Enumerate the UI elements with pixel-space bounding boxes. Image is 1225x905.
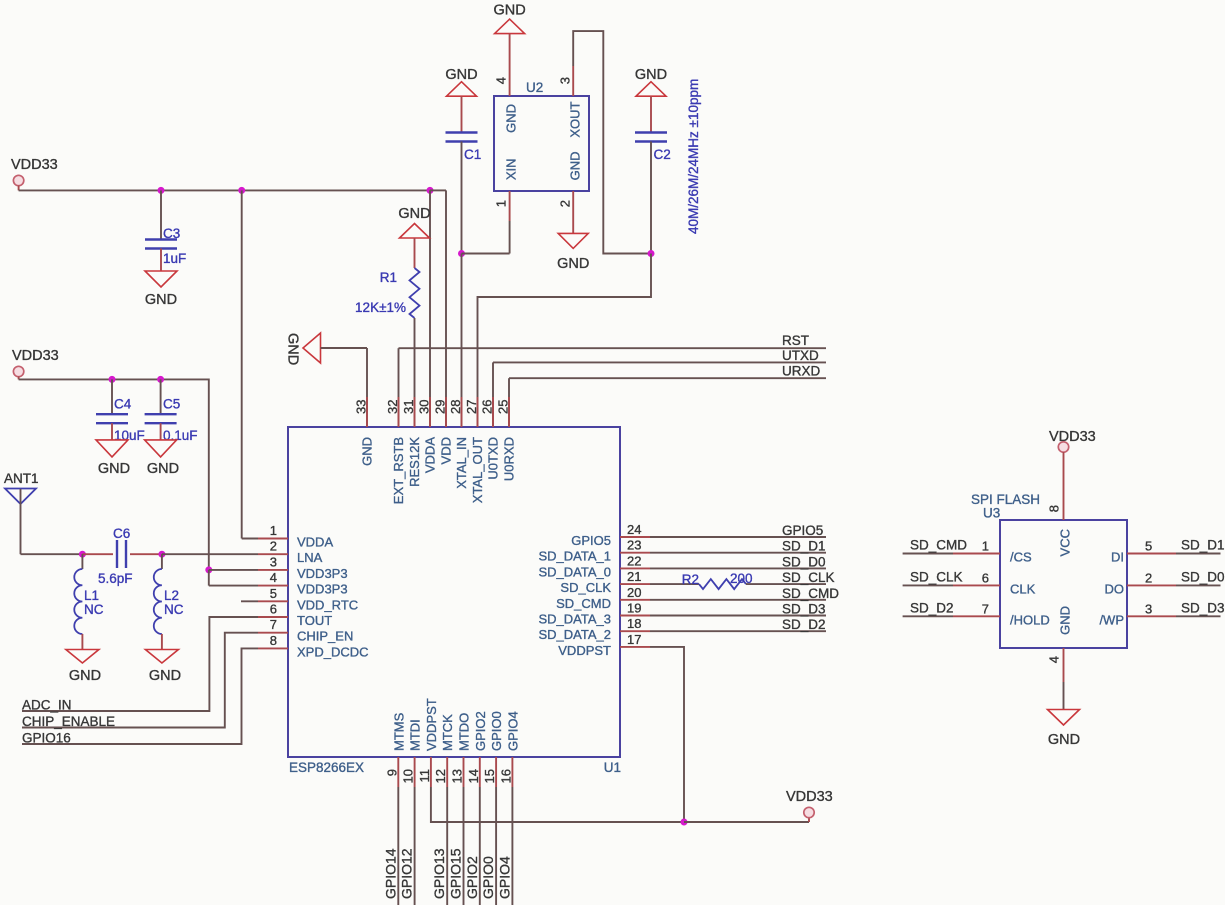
net SD_D3 line xyxy=(650,615,826,617)
svg-text:XTAL_OUT: XTAL_OUT xyxy=(470,437,485,503)
ground below C4 xyxy=(96,440,128,457)
svg-text:29: 29 xyxy=(433,400,448,414)
wire pin4 from corner xyxy=(209,585,258,587)
svg-text:10uF: 10uF xyxy=(114,428,145,443)
U1 pin 2 stub xyxy=(258,553,288,555)
svg-text:TOUT: TOUT xyxy=(297,613,332,628)
svg-text:4: 4 xyxy=(494,77,509,84)
U1 pin 10 stub xyxy=(414,757,416,787)
svg-text:GND: GND xyxy=(149,668,181,684)
net URXD line xyxy=(509,377,826,379)
svg-text:12: 12 xyxy=(433,769,448,783)
svg-text:GND: GND xyxy=(493,3,525,19)
wire rail2 to C5 xyxy=(160,379,162,414)
svg-text:GPIO14: GPIO14 xyxy=(382,848,398,899)
net GPIO16 route xyxy=(22,648,258,744)
svg-text:SD_DATA_0: SD_DATA_0 xyxy=(539,564,612,579)
net SD_CLK right part xyxy=(746,583,826,585)
ground above C1 xyxy=(447,82,477,97)
svg-text:GPIO0: GPIO0 xyxy=(489,711,504,751)
net SD_CMD line xyxy=(650,599,826,601)
wire VDD33 stub 2 xyxy=(18,377,20,380)
wire R1 top xyxy=(414,238,416,268)
junction L2/LNA xyxy=(158,551,165,558)
svg-text:21: 21 xyxy=(627,569,641,584)
ground below U2 pin2 xyxy=(558,233,588,248)
svg-text:C5: C5 xyxy=(163,397,180,412)
svg-text:4: 4 xyxy=(1047,656,1062,663)
U3 pin 1 stub xyxy=(953,553,1000,555)
svg-text:VDDPST: VDDPST xyxy=(558,643,611,658)
svg-text:SD_CMD: SD_CMD xyxy=(910,538,967,553)
svg-text:5: 5 xyxy=(270,586,277,601)
wire GPIO column pin 13 xyxy=(463,787,465,905)
svg-text:6: 6 xyxy=(982,570,989,585)
junction VDDA-col/rail xyxy=(238,187,245,194)
svg-text:GND: GND xyxy=(145,292,177,308)
U3 pin 5 stub xyxy=(1127,553,1176,555)
svg-text:20: 20 xyxy=(627,585,641,600)
U1 pin 12 stub xyxy=(446,757,448,787)
wire pin29 VDD column xyxy=(445,190,447,427)
svg-text:3: 3 xyxy=(270,554,277,569)
svg-text:VDD33: VDD33 xyxy=(1049,429,1096,445)
svg-text:GPIO5: GPIO5 xyxy=(782,523,823,538)
svg-text:GPIO0: GPIO0 xyxy=(480,856,496,899)
wire XIN horizontal xyxy=(462,253,510,255)
svg-text:14: 14 xyxy=(466,769,481,783)
svg-text:L1: L1 xyxy=(84,588,99,603)
U1 pin 19 stub xyxy=(620,615,650,617)
U3 pin8 stub xyxy=(1063,452,1065,520)
svg-text:CHIP_ENABLE: CHIP_ENABLE xyxy=(22,714,115,729)
svg-text:19: 19 xyxy=(627,601,641,616)
svg-text:GND: GND xyxy=(147,461,179,477)
U1 pin 7 stub xyxy=(258,632,288,634)
wire XTAL_OUT route xyxy=(478,254,652,428)
U1 pin 27 stub xyxy=(477,397,479,427)
U1 pin 11 stub xyxy=(430,757,432,787)
wire XTAL_IN column xyxy=(461,254,463,428)
U1 pin 1 stub xyxy=(258,538,288,540)
svg-text:GPIO16: GPIO16 xyxy=(22,731,71,746)
svg-text:2: 2 xyxy=(270,539,277,554)
svg-text:40M/26M/24MHz ±10ppm: 40M/26M/24MHz ±10ppm xyxy=(686,79,701,234)
junction C4/rail2 xyxy=(109,376,116,383)
svg-text:GND: GND xyxy=(504,104,519,133)
svg-text:1: 1 xyxy=(494,200,509,207)
wire VDD33 rail 2 xyxy=(19,379,209,570)
svg-text:DO: DO xyxy=(1105,581,1125,596)
svg-text:R2: R2 xyxy=(682,572,699,587)
svg-text:NC: NC xyxy=(84,602,104,617)
svg-text:GPIO5: GPIO5 xyxy=(571,533,611,548)
svg-text:24: 24 xyxy=(627,522,641,537)
svg-text:SD_CMD: SD_CMD xyxy=(782,586,839,601)
junction VDDPST xyxy=(681,819,688,826)
svg-text:10: 10 xyxy=(401,769,416,783)
svg-text:CHIP_EN: CHIP_EN xyxy=(297,629,353,644)
U1 pin 23 stub xyxy=(620,552,650,554)
svg-text:SD_CMD: SD_CMD xyxy=(556,596,611,611)
U1 pin 24 stub xyxy=(620,536,650,538)
svg-text:VDD_RTC: VDD_RTC xyxy=(297,597,358,612)
wire pin25 column xyxy=(508,378,510,427)
U1 pin 3 stub xyxy=(258,569,288,571)
net SD_D1 line xyxy=(650,552,826,554)
wire pin30 VDDA column xyxy=(429,190,431,427)
U3 pin 3 stub xyxy=(1127,615,1176,617)
resistor R2 xyxy=(699,579,746,589)
wire GPIO column pin 9 xyxy=(397,787,399,905)
svg-text:ANT1: ANT1 xyxy=(4,471,39,486)
svg-text:UTXD: UTXD xyxy=(782,348,819,363)
wire VDDA pin1 xyxy=(242,538,258,540)
junction C1/XIN/XTAL_IN xyxy=(458,250,465,257)
U1 pin 17 stub xyxy=(620,646,650,648)
wire U2 pin2 to gnd xyxy=(572,221,574,233)
U1 pin 29 stub xyxy=(445,397,447,427)
U1 pin 4 stub xyxy=(258,585,288,587)
wire VDDPST pin17 route xyxy=(650,647,684,822)
svg-text:SD_D2: SD_D2 xyxy=(910,600,954,615)
svg-text:SD_CLK: SD_CLK xyxy=(560,580,611,595)
U2 pin2 stub xyxy=(572,191,574,221)
junction VDD3P3 pins xyxy=(205,566,212,573)
resistor R1 xyxy=(410,268,420,318)
capacitor C4 xyxy=(96,414,128,423)
net SD_D2 line xyxy=(650,630,826,632)
wire U3 pin4 to gnd xyxy=(1063,682,1065,710)
svg-text:SD_DATA_1: SD_DATA_1 xyxy=(539,549,612,564)
svg-text:C2: C2 xyxy=(654,147,671,162)
svg-text:C4: C4 xyxy=(114,397,132,412)
svg-text:18: 18 xyxy=(627,616,641,631)
svg-text:VDD3P3: VDD3P3 xyxy=(297,582,348,597)
wire VDDA column xyxy=(241,190,243,538)
U1 pin 6 stub xyxy=(258,616,288,618)
svg-text:/WP: /WP xyxy=(1099,612,1124,627)
ground below L1 xyxy=(66,650,99,664)
svg-text:3: 3 xyxy=(1145,601,1152,616)
net SD_CMD wire xyxy=(903,553,953,555)
wire C4 to gnd xyxy=(111,423,113,440)
junction C2/XOUT xyxy=(648,250,655,257)
svg-text:URXD: URXD xyxy=(782,364,821,379)
svg-text:SD_D1: SD_D1 xyxy=(782,539,826,554)
svg-text:5: 5 xyxy=(1145,539,1152,554)
svg-text:GND: GND xyxy=(398,206,430,222)
svg-text:23: 23 xyxy=(627,538,641,553)
U1 pin 28 stub xyxy=(461,397,463,427)
VDD33 terminal circle bottom xyxy=(804,807,814,817)
svg-text:U0TXD: U0TXD xyxy=(486,437,501,480)
svg-text:VDDA: VDDA xyxy=(297,535,333,550)
wire pin5 stub net xyxy=(241,600,258,602)
svg-text:XTAL_IN: XTAL_IN xyxy=(454,437,469,489)
svg-text:ADC_IN: ADC_IN xyxy=(22,698,72,713)
wire VDDPST to VDD33 xyxy=(684,821,809,823)
U1 pin 20 stub xyxy=(620,599,650,601)
net SD_D0 wire right xyxy=(1176,584,1221,586)
svg-text:XIN: XIN xyxy=(504,159,519,181)
svg-text:LNA: LNA xyxy=(297,550,323,565)
svg-text:VDD33: VDD33 xyxy=(11,157,58,173)
crystal U2 box xyxy=(494,96,589,191)
svg-text:MTMS: MTMS xyxy=(391,712,406,751)
wire LNA to chip xyxy=(162,553,258,555)
wire VDDPST pin11 route xyxy=(431,787,684,822)
U3 pin 7 stub xyxy=(953,615,1000,617)
svg-text:28: 28 xyxy=(448,400,463,414)
svg-text:SD_D2: SD_D2 xyxy=(782,617,826,632)
junction rail end pin30 xyxy=(427,187,434,194)
svg-text:SD_DATA_2: SD_DATA_2 xyxy=(539,627,612,642)
ground below L2 xyxy=(145,650,178,664)
svg-text:U2: U2 xyxy=(526,80,543,95)
svg-text:GPIO13: GPIO13 xyxy=(431,848,447,899)
wire XIN down xyxy=(509,221,511,254)
svg-text:17: 17 xyxy=(627,632,641,647)
wire L1 to gnd xyxy=(81,634,83,650)
U1 pin 18 stub xyxy=(620,630,650,632)
svg-text:25: 25 xyxy=(496,400,511,414)
svg-text:33: 33 xyxy=(354,400,369,414)
svg-text:GPIO4: GPIO4 xyxy=(496,856,512,899)
svg-text:NC: NC xyxy=(164,602,184,617)
svg-text:SPI FLASH: SPI FLASH xyxy=(971,492,1040,507)
ground below U3 xyxy=(1048,710,1080,726)
svg-text:U1: U1 xyxy=(604,760,621,775)
wire C5 to gnd xyxy=(160,423,162,440)
svg-text:MTDO: MTDO xyxy=(457,713,472,751)
junction L1/LNA xyxy=(79,551,86,558)
svg-text:SD_D0: SD_D0 xyxy=(782,554,826,569)
U1 pin 8 stub xyxy=(258,647,288,649)
svg-text:GND: GND xyxy=(98,461,130,477)
ground below C5 xyxy=(145,440,177,457)
capacitor C1 xyxy=(446,133,478,142)
U3 pin 6 stub xyxy=(953,584,1000,586)
U1 pin 13 stub xyxy=(463,757,465,787)
U1 pin 25 stub xyxy=(508,397,510,427)
svg-text:EXT_RSTB: EXT_RSTB xyxy=(391,437,406,504)
wire pin3 to junction xyxy=(209,569,258,571)
wire GPIO column pin 16 xyxy=(511,787,513,905)
svg-text:L2: L2 xyxy=(164,588,179,603)
svg-text:VDDPST: VDDPST xyxy=(424,698,439,751)
U1 pin 15 stub xyxy=(495,757,497,787)
svg-text:VCC: VCC xyxy=(1058,529,1073,556)
wire pin26 column xyxy=(492,362,494,427)
svg-text:GND: GND xyxy=(1058,606,1073,635)
svg-text:3: 3 xyxy=(558,77,573,84)
net CHIP_ENABLE route xyxy=(22,633,258,728)
IC U1 ESP8266EX box xyxy=(288,427,620,757)
wire XOUT loop xyxy=(573,31,651,253)
U1 pin 22 stub xyxy=(620,567,650,569)
wire rail2 down to pin4 xyxy=(208,570,210,586)
U1 pin 26 stub xyxy=(492,397,494,427)
net RST line xyxy=(399,347,827,349)
wire C2 down xyxy=(650,142,652,254)
ground above C2 xyxy=(636,82,666,97)
svg-text:SD_D3: SD_D3 xyxy=(1181,600,1225,615)
svg-text:1uF: 1uF xyxy=(163,251,186,266)
svg-text:C1: C1 xyxy=(464,147,481,162)
wire antenna stem xyxy=(20,489,22,554)
svg-text:GND: GND xyxy=(285,333,301,365)
VDD33 terminal circle top-left xyxy=(13,175,23,185)
wire C6 to L2 xyxy=(130,553,162,555)
wire VDD33 right stub xyxy=(808,818,810,823)
wire R1 bottom to pin31 xyxy=(414,318,416,427)
svg-text:8: 8 xyxy=(270,633,277,648)
svg-text:22: 22 xyxy=(627,553,641,568)
svg-text:GND: GND xyxy=(568,152,583,181)
ground above U2 pin4 xyxy=(495,19,525,33)
svg-text:ESP8266EX: ESP8266EX xyxy=(289,760,364,775)
net GPIO5 line xyxy=(650,536,826,538)
svg-text:GPIO4: GPIO4 xyxy=(505,711,520,751)
junction C5/rail2 xyxy=(157,376,164,383)
svg-text:26: 26 xyxy=(480,400,495,414)
ground left of pin33 xyxy=(303,333,321,363)
U1 pin 5 stub xyxy=(258,600,288,602)
wire C1 to xtal node xyxy=(461,142,463,254)
svg-text:7: 7 xyxy=(270,617,277,632)
svg-text:GND: GND xyxy=(69,668,101,684)
svg-text:GPIO15: GPIO15 xyxy=(448,848,464,899)
wire pin32 column xyxy=(398,348,400,427)
svg-text:VDD: VDD xyxy=(439,437,454,464)
svg-text:SD_CLK: SD_CLK xyxy=(782,570,835,585)
svg-text:VDD33: VDD33 xyxy=(12,348,59,364)
svg-text:13: 13 xyxy=(450,769,465,783)
U3 pin 2 stub xyxy=(1127,584,1176,586)
svg-text:GPIO2: GPIO2 xyxy=(464,856,480,899)
svg-text:1: 1 xyxy=(982,539,989,554)
U1 pin 31 stub xyxy=(414,397,416,427)
svg-text:VDDA: VDDA xyxy=(423,437,438,473)
net LNA wire left xyxy=(21,553,83,555)
net SD_CLK wire xyxy=(903,584,953,586)
net UTXD line xyxy=(493,361,826,363)
net SD_D2 wire xyxy=(903,615,953,617)
svg-text:12K±1%: 12K±1% xyxy=(355,300,406,315)
U1 pin 16 stub xyxy=(511,757,513,787)
net SD_D1 wire right xyxy=(1176,553,1221,555)
svg-text:VDD3P3: VDD3P3 xyxy=(297,566,348,581)
capacitor C5 xyxy=(145,414,177,423)
wire VDD33 rail 1 xyxy=(19,189,430,191)
U2 pin1 stub xyxy=(509,191,511,221)
wire L2 to gnd xyxy=(161,634,163,650)
wire L1 top xyxy=(81,554,83,569)
svg-text:5.6pF: 5.6pF xyxy=(98,571,133,586)
junction C3/rail xyxy=(158,187,165,194)
capacitor C2 xyxy=(635,133,667,142)
svg-text:11: 11 xyxy=(417,769,432,783)
inductor L2 xyxy=(154,569,162,634)
svg-text:9: 9 xyxy=(384,769,399,776)
U2 pin3 stub xyxy=(572,66,574,96)
svg-text:SD_D3: SD_D3 xyxy=(782,602,826,617)
wire L2 top xyxy=(161,554,163,569)
svg-text:GND: GND xyxy=(557,256,589,272)
wire rail to C3 xyxy=(160,190,162,239)
svg-text:15: 15 xyxy=(482,769,497,783)
U1 pin 14 stub xyxy=(479,757,481,787)
svg-text:SD_D1: SD_D1 xyxy=(1181,538,1225,553)
svg-text:VDD33: VDD33 xyxy=(786,789,833,805)
svg-text:R1: R1 xyxy=(380,270,397,285)
svg-text:RST: RST xyxy=(782,333,809,348)
svg-text:GPIO12: GPIO12 xyxy=(399,848,415,899)
U1 pin 21 stub xyxy=(620,583,650,585)
svg-text:32: 32 xyxy=(385,400,400,414)
U2 pin4 stub xyxy=(509,34,511,96)
svg-text:31: 31 xyxy=(401,400,416,414)
wire LNA to C6 xyxy=(82,553,113,555)
wire GND to C1 xyxy=(461,96,463,132)
svg-text:6: 6 xyxy=(270,602,277,617)
U1 pin 9 stub xyxy=(397,757,399,787)
svg-text:7: 7 xyxy=(982,601,989,616)
svg-text:2: 2 xyxy=(558,200,573,207)
antenna ANT1 xyxy=(5,489,36,505)
svg-text:U3: U3 xyxy=(983,506,1000,521)
net ADC_IN route xyxy=(22,617,258,711)
wire GPIO column pin 15 xyxy=(495,787,497,905)
net SD_CLK left part xyxy=(650,583,699,585)
svg-text:XPD_DCDC: XPD_DCDC xyxy=(297,644,369,659)
wire rail2 to C4 xyxy=(111,379,113,414)
svg-text:0.1uF: 0.1uF xyxy=(163,428,198,443)
wire pin33 column xyxy=(366,348,368,427)
wire GPIO column pin 14 xyxy=(479,787,481,905)
svg-text:RES12K: RES12K xyxy=(407,437,422,487)
svg-text:GND: GND xyxy=(360,437,375,466)
svg-text:SD_D0: SD_D0 xyxy=(1181,569,1225,584)
wire rail to pin29 corner xyxy=(430,189,446,191)
wire gnd to pin33 col xyxy=(321,347,368,349)
IC U3 SPI flash box xyxy=(1000,520,1127,648)
net SD_D3 wire right xyxy=(1176,615,1221,617)
capacitor C3 xyxy=(145,240,177,249)
wire VDD33 terminal stub xyxy=(18,186,20,191)
svg-text:/CS: /CS xyxy=(1010,550,1032,565)
svg-text:8: 8 xyxy=(1047,505,1062,512)
ground above R1 xyxy=(400,224,430,239)
svg-text:C6: C6 xyxy=(113,526,130,541)
VDD33 terminal circle U3 xyxy=(1058,442,1068,452)
U1 pin 33 stub xyxy=(366,397,368,427)
svg-text:GPIO2: GPIO2 xyxy=(473,711,488,751)
U3 pin4 stub xyxy=(1063,648,1065,682)
svg-text:GND: GND xyxy=(1048,732,1080,748)
wire GPIO column pin 10 xyxy=(414,787,416,905)
inductor L1 xyxy=(74,569,82,634)
svg-text:XOUT: XOUT xyxy=(568,101,583,137)
svg-text:/HOLD: /HOLD xyxy=(1010,612,1050,627)
VDD33 terminal circle mid-left xyxy=(13,366,23,376)
U1 pin 30 stub xyxy=(429,397,431,427)
svg-text:SD_DATA_3: SD_DATA_3 xyxy=(539,612,612,627)
ground below C3 xyxy=(145,271,177,287)
svg-text:MTDI: MTDI xyxy=(408,719,423,751)
capacitor C6 xyxy=(117,540,126,568)
